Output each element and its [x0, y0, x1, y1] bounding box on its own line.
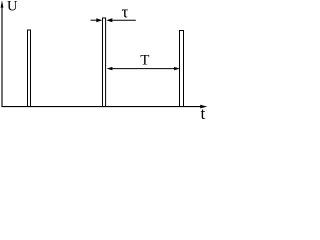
pulse 1: [28, 30, 31, 107]
t axis (horizontal): [2, 106, 202, 108]
U axis arrowhead: [1, 0, 4, 7]
pulse 2 (middle, taller): [103, 18, 106, 107]
svg-text:T: T: [140, 53, 149, 69]
T period arrow (double headed): [111, 68, 175, 70]
U axis (vertical): [1, 5, 3, 107]
tau right arrow (points left at pulse 2): [112, 19, 136, 21]
t axis arrowhead: [200, 105, 207, 109]
svg-text:U: U: [7, 0, 18, 15]
svg-text:t: t: [201, 104, 206, 120]
tau left arrow (points right at pulse 2): [91, 19, 98, 21]
svg-text:τ: τ: [122, 3, 129, 22]
pulse 3: [180, 31, 184, 107]
